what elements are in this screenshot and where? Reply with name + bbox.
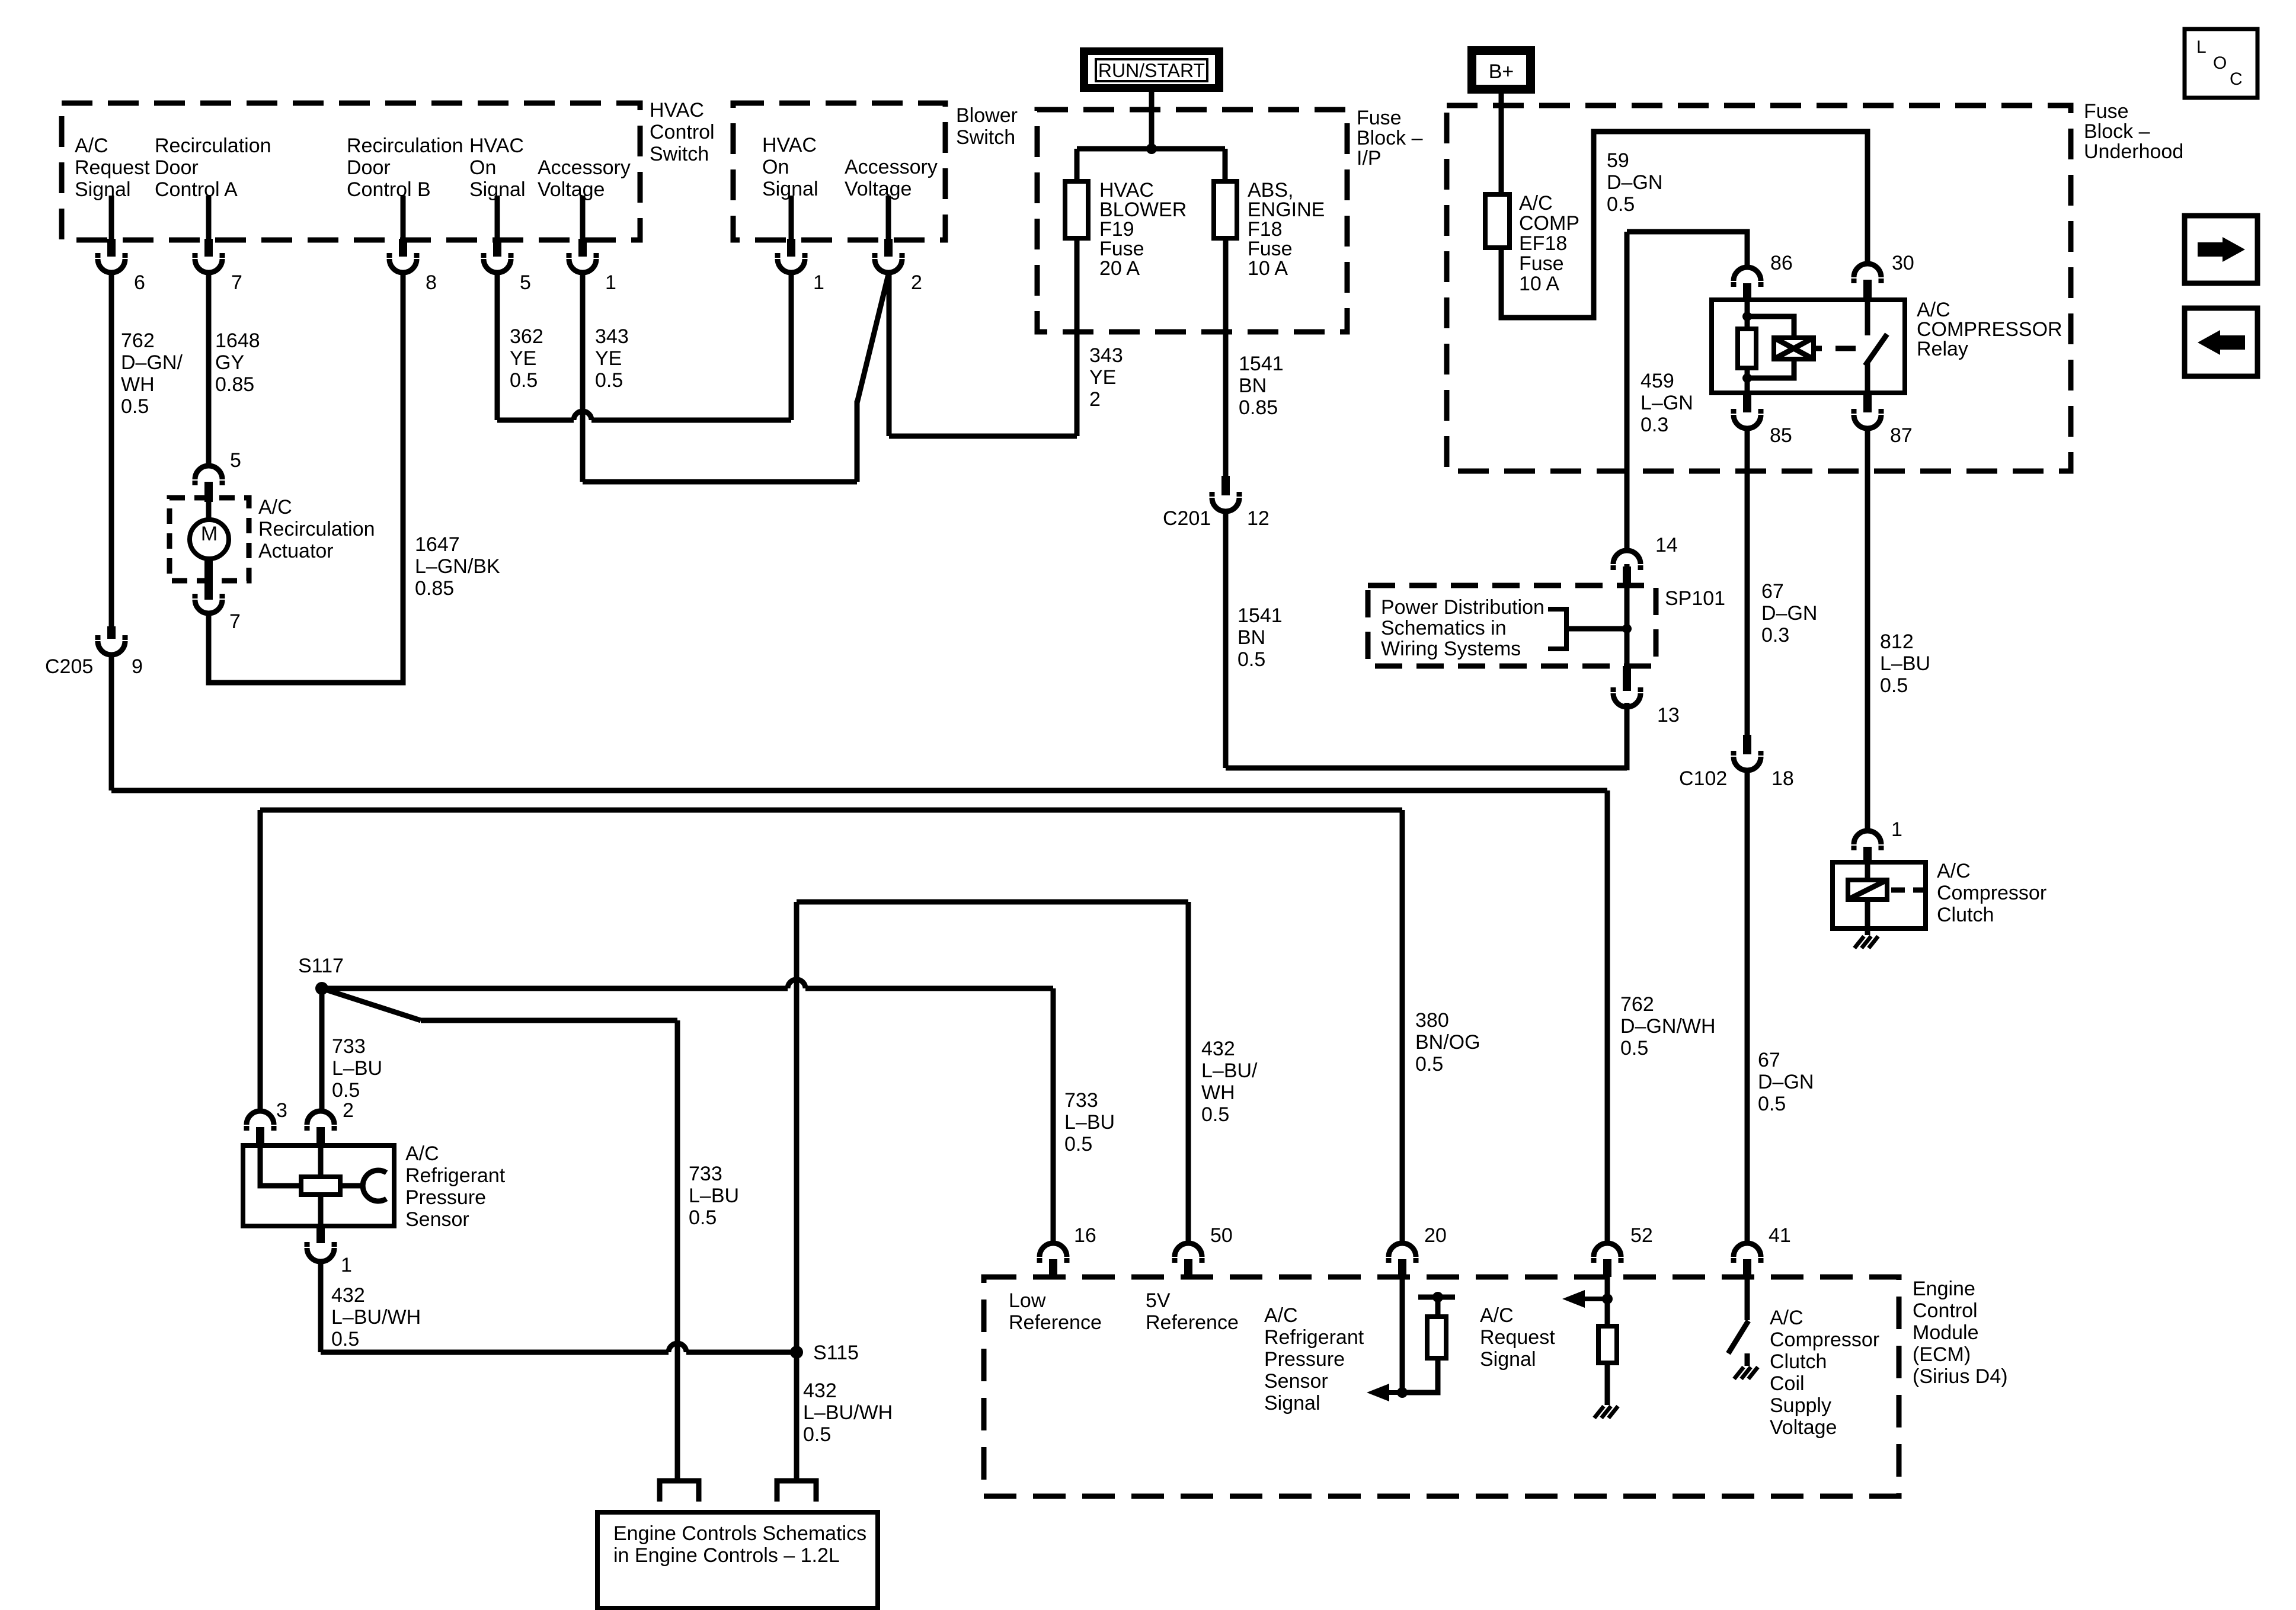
sensor transducer arc: [363, 1170, 386, 1201]
svg-text:0.5: 0.5: [1064, 1133, 1092, 1156]
svg-text:Relay: Relay: [1917, 338, 1968, 360]
svg-text:L–BU/WH: L–BU/WH: [331, 1306, 421, 1329]
connector SP101 pin 14: [1613, 534, 1678, 585]
wire 762 label: [121, 329, 183, 418]
svg-text:Request: Request: [75, 156, 150, 179]
svg-text:Wiring Systems: Wiring Systems: [1381, 638, 1521, 660]
connector ECM pin 20: [1389, 1224, 1447, 1277]
svg-text:A/C: A/C: [1770, 1307, 1803, 1329]
ECM pin20 resistor return: [1402, 1358, 1438, 1393]
svg-text:0.5: 0.5: [121, 395, 149, 418]
svg-text:1: 1: [1891, 818, 1902, 841]
ECM pressure signal arrow: [1367, 1384, 1402, 1401]
SP101 label: [1665, 587, 1725, 610]
wire 812 L-BU label: [1880, 630, 1930, 697]
HVAC Control Switch dashed box: [62, 103, 640, 240]
connector C102 pin 18: [1679, 735, 1794, 790]
svg-text:Fuse: Fuse: [1357, 107, 1402, 129]
svg-text:Accessory: Accessory: [538, 156, 631, 179]
connector C205 pin 9: [45, 626, 143, 678]
connector relay pin 86: [1734, 252, 1793, 300]
svg-text:Clutch: Clutch: [1770, 1350, 1827, 1373]
pin 1 lead: [580, 196, 586, 239]
connector pin 5: [484, 239, 531, 294]
svg-text:Accessory: Accessory: [845, 156, 938, 178]
wire 459 L-GN label: [1641, 370, 1693, 436]
svg-text:D–GN: D–GN: [1761, 602, 1817, 625]
splice S115: [790, 1342, 859, 1364]
svg-text:D–GN/WH: D–GN/WH: [1620, 1015, 1716, 1038]
wire 380 BN/OG label: [1415, 1009, 1480, 1076]
svg-text:S117: S117: [298, 955, 344, 977]
connector ECM pin 16: [1040, 1224, 1096, 1277]
svg-text:2: 2: [911, 271, 922, 294]
svg-text:Voltage: Voltage: [1770, 1416, 1837, 1439]
svg-text:C201: C201: [1163, 507, 1211, 530]
svg-text:0.5: 0.5: [1415, 1053, 1443, 1076]
svg-text:7: 7: [229, 610, 241, 633]
Blower HVAC On Signal label: [762, 134, 818, 200]
wire S117 diagonal: [322, 988, 421, 1020]
ECM pin52 ground lead: [1605, 1363, 1610, 1405]
svg-text:432: 432: [1201, 1038, 1235, 1060]
wire 343 YE 2 horizontal: [889, 434, 1077, 439]
HVAC On Signal pin label: [469, 135, 526, 201]
svg-text:5: 5: [520, 271, 531, 294]
clutch link dashes: [1891, 888, 1926, 893]
svg-text:67: 67: [1758, 1049, 1780, 1071]
ECM pin41 switch blade: [1728, 1321, 1748, 1353]
svg-text:41: 41: [1769, 1224, 1791, 1247]
svg-text:Blower: Blower: [956, 104, 1018, 127]
RUN/START power box: [1080, 47, 1223, 92]
svg-text:0.5: 0.5: [1620, 1037, 1648, 1060]
sensor pin1 stub: [316, 1226, 325, 1243]
ECM pin52 lead: [1605, 1277, 1610, 1326]
wire 380 horizontal y1367: [260, 808, 1402, 813]
svg-text:COMP: COMP: [1519, 212, 1579, 235]
svg-text:Door: Door: [347, 156, 391, 179]
svg-text:O: O: [2213, 53, 2227, 73]
svg-text:Refrigerant: Refrigerant: [1264, 1326, 1364, 1349]
SP101 splice wire: [1625, 564, 1630, 687]
ECM pin41 ground: [1734, 1367, 1758, 1379]
svg-text:BN/OG: BN/OG: [1415, 1031, 1480, 1054]
wire 762 D-GN/WH label: [1620, 993, 1716, 1060]
svg-text:0.5: 0.5: [1201, 1103, 1229, 1126]
fuse F19 HVAC BLOWER: [1065, 181, 1088, 238]
wire 67 D-GN 0.5 label: [1758, 1049, 1814, 1115]
svg-text:85: 85: [1770, 424, 1792, 447]
SP101 bracket: [1548, 609, 1627, 649]
svg-text:Signal: Signal: [75, 178, 131, 201]
svg-text:Switch: Switch: [650, 143, 709, 165]
wire F19 output drop: [1075, 238, 1080, 436]
svg-text:30: 30: [1892, 252, 1914, 274]
wire S117 to sensor pin2: [319, 988, 325, 1112]
svg-text:0.5: 0.5: [331, 1328, 359, 1350]
svg-text:459: 459: [1641, 370, 1674, 392]
relay coil leg lower: [1745, 368, 1750, 393]
wire 432 horizontal y2282: [321, 1343, 797, 1352]
wire 1541 BN 0.85 label: [1239, 353, 1284, 419]
svg-text:On: On: [762, 156, 789, 178]
svg-text:Sensor: Sensor: [405, 1208, 469, 1231]
wire B+ to EF18: [1499, 89, 1504, 194]
Recirculation Door Control A pin label: [155, 135, 271, 201]
svg-text:Reference: Reference: [1146, 1311, 1239, 1334]
connector blower pin 2: [875, 239, 922, 294]
svg-text:Control A: Control A: [155, 178, 238, 201]
A/C Request Signal pin label: [75, 135, 150, 201]
svg-text:Voltage: Voltage: [538, 178, 605, 201]
relay switch upper contact: [1865, 300, 1870, 335]
ECM A/C Compressor Clutch Coil Supply Voltage label: [1770, 1307, 1879, 1439]
svg-text:Coil: Coil: [1770, 1372, 1805, 1395]
svg-text:762: 762: [121, 329, 155, 352]
svg-text:Compressor: Compressor: [1937, 882, 2046, 904]
svg-text:L–GN/BK: L–GN/BK: [415, 555, 500, 578]
wire 343 horizontal y813: [583, 479, 857, 485]
svg-text:Door: Door: [155, 156, 199, 179]
ECM pin41 lead: [1745, 1277, 1750, 1320]
wire 380 riser to ECM 20: [1400, 810, 1405, 1243]
relay coil junction upper: [1742, 312, 1752, 321]
wire 1647 path: [209, 273, 403, 683]
relay coil element: [1774, 338, 1814, 359]
svg-text:0.5: 0.5: [510, 369, 538, 392]
SP101 dashed box: [1368, 585, 1656, 666]
svg-text:L–BU: L–BU: [1880, 652, 1930, 675]
actuator motor: [190, 520, 229, 559]
pin 6 lead: [109, 196, 114, 239]
wire 733 L-BU 0.5 label pin16: [1064, 1089, 1115, 1156]
svg-text:733: 733: [1064, 1089, 1098, 1112]
svg-text:343: 343: [595, 325, 629, 348]
blower pin 1 lead: [789, 196, 794, 239]
svg-text:2: 2: [1089, 388, 1101, 411]
connector ECM pin 52: [1594, 1224, 1653, 1277]
wire 432 riser from S115: [794, 902, 800, 1352]
terminal fork right: [777, 1481, 816, 1502]
wire to F18: [1223, 149, 1228, 181]
Fuse Block I/P label: [1357, 107, 1423, 169]
svg-text:0.3: 0.3: [1761, 624, 1789, 646]
wire 59 D-GN label: [1607, 149, 1662, 216]
svg-text:GY: GY: [215, 351, 244, 374]
connector sensor pin 2: [307, 1099, 354, 1145]
A/C Compressor Relay box: [1712, 300, 1905, 393]
connector pin 7: [195, 239, 242, 294]
wire 733 horizontal y1668: [322, 980, 1053, 988]
wire 733 label sensor: [332, 1035, 382, 1102]
Engine Controls Schematics text: [613, 1522, 866, 1567]
ECM pin41 ground lead: [1745, 1353, 1750, 1366]
svg-text:2: 2: [343, 1099, 354, 1122]
5V Reference label: [1146, 1289, 1239, 1334]
wire to F19: [1075, 149, 1080, 181]
Engine Controls Schematics box: [597, 1512, 878, 1608]
connector actuator pin 7: [195, 594, 241, 633]
svg-text:Reference: Reference: [1009, 1311, 1102, 1334]
wire 812 L-BU drop: [1865, 428, 1870, 831]
svg-text:Voltage: Voltage: [845, 178, 912, 200]
svg-text:L–BU: L–BU: [689, 1185, 739, 1207]
svg-text:M: M: [201, 523, 218, 545]
wire 343 YE label: [595, 325, 629, 392]
wire 362 horizontal with hop: [497, 411, 791, 420]
relay coil junction lower: [1742, 373, 1752, 383]
junction feed: [1146, 143, 1157, 154]
ECM pin20 rail bar: [1418, 1295, 1455, 1300]
connector pin 1: [569, 239, 616, 294]
connector relay pin 87: [1854, 393, 1913, 447]
svg-text:1648: 1648: [215, 329, 260, 352]
Blower Accessory Voltage label: [845, 156, 938, 200]
svg-text:432: 432: [803, 1379, 837, 1402]
svg-text:On: On: [469, 156, 496, 179]
connector ECM pin 50: [1175, 1224, 1233, 1277]
wire 67 D-GN 0.5 drop: [1745, 770, 1750, 1243]
wire 459 L-GN drop: [1625, 232, 1630, 550]
ECM pin20 lead: [1400, 1277, 1405, 1393]
svg-text:Engine: Engine: [1913, 1278, 1975, 1300]
svg-text:D–GN: D–GN: [1607, 171, 1662, 194]
SP101 reference text: [1381, 596, 1544, 660]
wire 459 to relay 86: [1627, 232, 1747, 267]
A/C Refrigerant Pressure Sensor label: [405, 1142, 506, 1231]
svg-text:0.3: 0.3: [1641, 414, 1668, 436]
svg-text:RUN/START: RUN/START: [1098, 60, 1205, 81]
sensor pin3 internal: [260, 1145, 301, 1186]
wire 380 sensor pin3 drop: [258, 810, 263, 1112]
svg-text:Fuse: Fuse: [1519, 252, 1564, 275]
terminal fork left: [660, 1481, 699, 1502]
svg-text:Signal: Signal: [1480, 1348, 1536, 1371]
svg-text:Block –: Block –: [2084, 120, 2150, 143]
wire 762 pin6 drop: [109, 273, 114, 626]
A/C Compressor Clutch label: [1937, 860, 2046, 926]
ECM pin20 junction top: [1432, 1292, 1443, 1302]
Recirculation Door Control B pin label: [347, 135, 463, 201]
svg-text:I/P: I/P: [1357, 147, 1382, 169]
svg-text:3: 3: [276, 1099, 287, 1122]
svg-text:0.5: 0.5: [803, 1423, 831, 1446]
svg-text:67: 67: [1761, 580, 1784, 603]
wire 343 riser to blower pin2: [887, 273, 892, 436]
wire 432 L-BU/WH label pin50: [1201, 1038, 1258, 1126]
wire 762 C205 drop: [109, 655, 114, 790]
svg-text:Request: Request: [1480, 1326, 1555, 1349]
svg-text:A/C: A/C: [258, 496, 292, 518]
svg-text:C102: C102: [1679, 767, 1727, 790]
blower pin 2 lead: [886, 196, 891, 239]
wire 362 YE pin5 drop: [495, 273, 500, 420]
B+ power box: [1467, 46, 1535, 94]
svg-text:733: 733: [689, 1163, 722, 1185]
svg-text:D–GN/: D–GN/: [121, 351, 183, 374]
fuse F18 ABS ENGINE: [1214, 181, 1237, 238]
wire 1648 GY pin7 drop: [206, 273, 212, 465]
svg-text:9: 9: [132, 655, 143, 678]
clutch ground: [1854, 936, 1878, 948]
svg-text:Switch: Switch: [956, 126, 1015, 149]
ECM pin20 resistor: [1427, 1317, 1446, 1358]
svg-text:Compressor: Compressor: [1770, 1329, 1879, 1351]
svg-text:HVAC: HVAC: [650, 99, 704, 121]
svg-text:0.5: 0.5: [1237, 648, 1265, 671]
relay actuate dashes: [1814, 346, 1856, 351]
svg-text:D–GN: D–GN: [1758, 1071, 1814, 1093]
wire RUN/START to fuses: [1149, 88, 1155, 149]
svg-text:0.5: 0.5: [1607, 193, 1635, 216]
svg-text:L–GN: L–GN: [1641, 392, 1693, 414]
svg-text:Supply: Supply: [1770, 1394, 1831, 1417]
svg-text:WH: WH: [121, 373, 155, 396]
svg-text:SP101: SP101: [1665, 587, 1725, 610]
Engine Control Module label: [1913, 1278, 2008, 1388]
svg-text:0.5: 0.5: [689, 1206, 717, 1229]
relay coil branch: [1747, 316, 1794, 378]
ECM pin52 ground: [1594, 1406, 1618, 1418]
svg-text:A/C: A/C: [1519, 192, 1553, 215]
wire 432 S115 drop: [794, 1352, 800, 1481]
wire 733 riser to ECM 16: [1051, 988, 1056, 1243]
svg-text:Recirculation: Recirculation: [347, 135, 463, 157]
pin 8 lead: [401, 196, 406, 239]
svg-text:13: 13: [1657, 704, 1680, 726]
svg-text:A/C: A/C: [1480, 1304, 1514, 1327]
svg-text:L: L: [2196, 37, 2207, 57]
connector sensor pin 3: [247, 1099, 287, 1145]
svg-text:Refrigerant: Refrigerant: [405, 1164, 506, 1187]
ECM pin20 junction bottom: [1397, 1387, 1408, 1398]
svg-text:Low: Low: [1009, 1289, 1046, 1312]
svg-text:Signal: Signal: [1264, 1392, 1320, 1414]
svg-text:343: 343: [1089, 344, 1123, 367]
wire blower pin1 drop: [789, 273, 794, 420]
svg-text:Engine Controls Schematics: Engine Controls Schematics: [613, 1522, 866, 1545]
svg-text:WH: WH: [1201, 1081, 1235, 1104]
wire 432 L-BU/WH label below S115: [803, 1379, 893, 1446]
A/C Compressor Relay label: [1917, 299, 2062, 360]
svg-text:0.85: 0.85: [415, 577, 454, 600]
svg-text:14: 14: [1655, 534, 1678, 556]
Accessory Voltage pin label: [538, 156, 631, 201]
svg-text:0.5: 0.5: [1880, 674, 1908, 697]
svg-text:S115: S115: [813, 1342, 859, 1364]
fuse F19 label: [1099, 179, 1187, 280]
Fuse Block I/P dashed box: [1037, 110, 1347, 332]
svg-text:5V: 5V: [1146, 1289, 1171, 1312]
svg-text:Recirculation: Recirculation: [258, 518, 375, 540]
wire 762 horizontal y1334: [111, 788, 1607, 793]
sensor transducer link: [340, 1183, 365, 1189]
svg-text:Pressure: Pressure: [1264, 1348, 1345, 1371]
svg-text:Control: Control: [650, 121, 715, 143]
svg-text:(Sirius D4): (Sirius D4): [1913, 1365, 2008, 1388]
wire blower pin2 diagonal: [857, 274, 888, 403]
wire 1541 horizontal y1296: [1226, 766, 1627, 771]
svg-text:59: 59: [1607, 149, 1629, 172]
clutch coil element: [1848, 880, 1887, 900]
sensor resistor: [301, 1177, 340, 1195]
connector pin 8: [389, 239, 437, 294]
svg-text:L–BU/WH: L–BU/WH: [803, 1401, 893, 1424]
connector ECM pin 41: [1734, 1224, 1791, 1277]
svg-text:6: 6: [134, 271, 145, 294]
LOC reference box: [2185, 29, 2257, 98]
A/C Recirculation Actuator label: [258, 496, 375, 562]
svg-text:YE: YE: [1089, 366, 1116, 389]
svg-text:0.5: 0.5: [1758, 1093, 1786, 1115]
SP101 junction: [1622, 624, 1632, 633]
Fuse Block Underhood label: [2084, 100, 2183, 163]
svg-text:Block –: Block –: [1357, 127, 1423, 149]
A/C Refrigerant Pressure Sensor box: [243, 1145, 394, 1226]
svg-text:0.5: 0.5: [595, 369, 623, 392]
ECM pin52 resistor: [1598, 1326, 1617, 1363]
svg-text:in Engine Controls – 1.2L: in Engine Controls – 1.2L: [613, 1544, 840, 1567]
svg-text:YE: YE: [595, 347, 622, 370]
connector actuator pin 5: [195, 449, 241, 520]
svg-text:(ECM): (ECM): [1913, 1343, 1971, 1366]
svg-text:432: 432: [331, 1284, 365, 1307]
wire 362 YE label: [510, 325, 543, 392]
svg-text:812: 812: [1880, 630, 1914, 653]
svg-text:Power Distribution: Power Distribution: [1381, 596, 1544, 619]
svg-text:87: 87: [1890, 424, 1913, 447]
Blower Switch label: [956, 104, 1018, 149]
svg-text:HVAC: HVAC: [762, 134, 817, 156]
pin 7 lead: [206, 196, 212, 239]
svg-text:1647: 1647: [415, 533, 460, 556]
svg-text:BN: BN: [1237, 626, 1265, 649]
svg-text:BN: BN: [1239, 375, 1267, 397]
wire 343 drop x1446: [855, 401, 860, 482]
wire 733 L-BU 0.5 label left: [689, 1163, 739, 1229]
svg-text:362: 362: [510, 325, 543, 348]
svg-text:C205: C205: [45, 655, 93, 678]
svg-text:0.85: 0.85: [215, 373, 254, 396]
svg-text:Sensor: Sensor: [1264, 1370, 1328, 1393]
svg-text:7: 7: [231, 271, 242, 294]
wire 432 L-BU/WH label: [331, 1284, 421, 1350]
Blower Switch dashed box: [733, 103, 945, 240]
connector clutch pin 1: [1854, 818, 1902, 862]
wire 67 D-GN 0.3 label: [1761, 580, 1817, 646]
ECM request signal arrow: [1562, 1290, 1607, 1308]
svg-text:L–BU/: L–BU/: [1201, 1060, 1258, 1082]
svg-text:0.85: 0.85: [1239, 396, 1278, 419]
wire F18 output drop: [1223, 238, 1229, 476]
svg-text:L–BU: L–BU: [1064, 1111, 1115, 1134]
wire 733 horizontal y1722: [421, 1018, 677, 1023]
svg-text:12: 12: [1247, 507, 1269, 530]
connector SP101 pin 13: [1613, 666, 1680, 726]
svg-text:A/C: A/C: [405, 1142, 439, 1165]
svg-text:Actuator: Actuator: [258, 540, 334, 562]
svg-text:Schematics in: Schematics in: [1381, 617, 1507, 639]
svg-text:1541: 1541: [1237, 604, 1283, 627]
wire 762 riser to ECM 52: [1605, 790, 1610, 1243]
svg-text:L–BU: L–BU: [332, 1057, 382, 1080]
right arrow box: [2185, 216, 2257, 283]
wire 1541 BN 0.5 drop: [1223, 511, 1229, 768]
svg-text:16: 16: [1074, 1224, 1096, 1247]
connector relay pin 85: [1734, 393, 1792, 447]
Fuse Block Underhood dashed box: [1447, 105, 2071, 471]
